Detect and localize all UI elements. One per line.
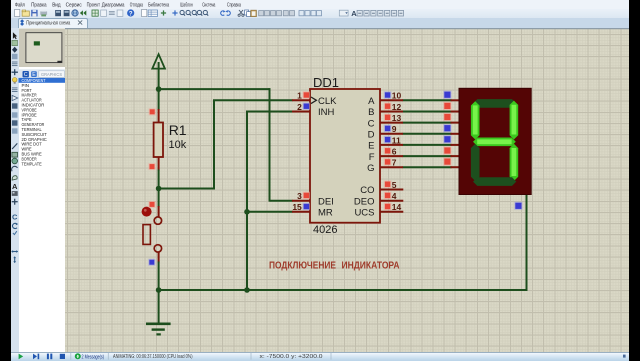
svg-text:E: E [32, 72, 36, 78]
svg-text:GRAPHICS: GRAPHICS [41, 72, 62, 77]
svg-text:ACTUATOR: ACTUATOR [22, 98, 43, 103]
svg-text:Файл: Файл [15, 1, 25, 8]
svg-text:Отладка: Отладка [130, 2, 144, 8]
svg-text:C: C [24, 72, 28, 78]
svg-text:INDICATOR: INDICATOR [22, 103, 45, 108]
svg-text:IPROBE: IPROBE [22, 112, 37, 117]
svg-text:?: ? [129, 11, 133, 17]
svg-text:A: A [12, 182, 18, 191]
svg-text:x: -7500.0 y: +3200.0: x: -7500.0 y: +3200.0 [260, 354, 323, 360]
svg-text:TEMPLATE: TEMPLATE [22, 161, 42, 166]
svg-text:Шаблон: Шаблон [180, 2, 193, 8]
svg-text:2 Message(s): 2 Message(s) [82, 354, 105, 360]
svg-text:BUS WIRE: BUS WIRE [22, 152, 42, 157]
svg-text:BORDER: BORDER [22, 156, 38, 161]
svg-text:A: A [351, 9, 357, 18]
svg-text:Сервис: Сервис [66, 2, 82, 8]
svg-text:Справка: Справка [227, 2, 241, 8]
svg-text:ANIMATING: 00:06:37.150000 (CP: ANIMATING: 00:06:37.150000 (CPU load 0%) [113, 354, 193, 360]
svg-text:MARKER: MARKER [22, 93, 38, 98]
svg-text:Система: Система [202, 2, 216, 8]
svg-text:Правка: Правка [31, 2, 47, 8]
svg-text:WIRE DOT: WIRE DOT [22, 142, 42, 147]
svg-text:TAPE: TAPE [22, 117, 32, 122]
svg-text:Диаграмма: Диаграмма [102, 2, 125, 8]
svg-text:VPROBE: VPROBE [22, 107, 37, 112]
svg-text:COMPONENT: COMPONENT [22, 78, 46, 83]
svg-text:GENERATOR: GENERATOR [22, 122, 45, 127]
svg-text:Библиотека: Библиотека [148, 2, 170, 8]
svg-text:SUBCIRCUIT: SUBCIRCUIT [22, 132, 47, 137]
svg-text:Проект: Проект [87, 2, 101, 8]
svg-text:PORT: PORT [22, 88, 32, 93]
svg-text:WIRE: WIRE [22, 147, 32, 152]
svg-text:PIN: PIN [22, 83, 30, 88]
svg-text:TERMINAL: TERMINAL [22, 127, 43, 132]
svg-text:Принципиальная схема: Принципиальная схема [26, 21, 71, 27]
svg-text:C: C [12, 213, 18, 222]
svg-text:Вид: Вид [52, 2, 61, 8]
svg-text:2D GRAPHIC: 2D GRAPHIC [22, 137, 48, 142]
